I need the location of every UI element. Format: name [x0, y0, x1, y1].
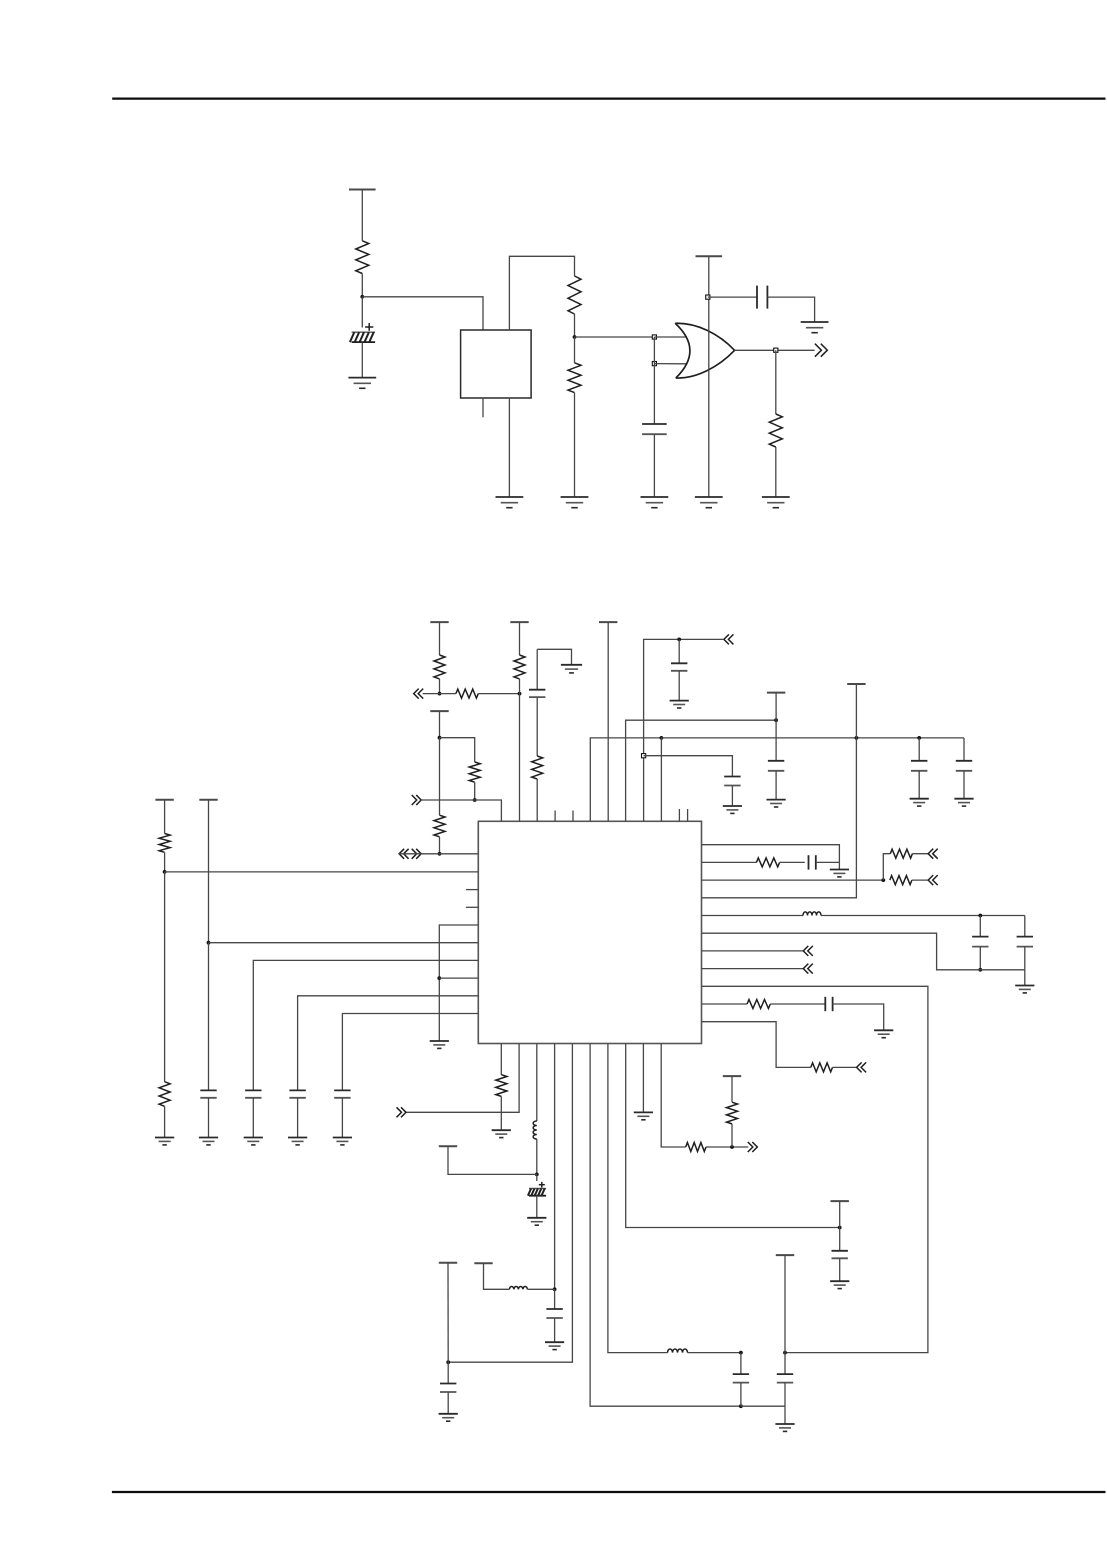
resistor R6	[456, 689, 478, 698]
wire corner down to C4	[536, 649, 538, 689]
wire node B to OR gate input	[575, 336, 655, 338]
wire lower net	[702, 933, 1025, 970]
capacitor C6	[956, 761, 972, 771]
wire pin B9 to ground	[642, 1044, 644, 1113]
wire pull-up node to R20	[731, 1124, 733, 1147]
wire R10 to IC pin T3	[536, 779, 538, 821]
wire C15 to ground	[252, 1098, 254, 1138]
ground (B9)	[634, 1112, 653, 1119]
junction CLKIN at C8	[677, 638, 681, 642]
junction lower net C11	[978, 968, 982, 972]
wire VCC to R1	[361, 190, 363, 241]
wire L4 to C21 node	[687, 1352, 741, 1354]
pin square CLKIN RC tap	[642, 754, 646, 758]
ground (XTAL arm)	[561, 665, 582, 673]
capacitor C5	[911, 761, 927, 771]
wire P10 to VBAT node	[448, 1146, 537, 1174]
resistor R12	[890, 876, 912, 885]
wire R16 to VREF node	[164, 852, 166, 872]
capacitor C15	[245, 1090, 261, 1097]
junction RESET node left	[438, 692, 442, 696]
capacitor C13	[825, 997, 832, 1011]
off-page connector IRQ	[857, 1062, 867, 1072]
ground (R18)	[492, 1130, 511, 1137]
wire P4 down	[439, 711, 441, 738]
capacitor C23	[832, 1251, 848, 1259]
wire P15 to B8 node	[839, 1201, 841, 1227]
wire P4 node down to R9	[439, 738, 441, 816]
junction P4 node	[438, 736, 442, 740]
junction B4 node	[553, 1287, 557, 1291]
wire P6 vertical to pin R4	[702, 684, 857, 898]
junction B5 node	[446, 1360, 450, 1364]
junction RESET node right	[518, 692, 522, 696]
wire VBAT node to C18	[536, 1174, 538, 1181]
wire C20 to ground	[447, 1392, 449, 1414]
polarized capacitor C1	[350, 323, 375, 342]
wire C6 drop	[963, 738, 965, 761]
wire C19 to ground	[554, 1318, 556, 1342]
wire pin B1 to R18	[500, 1044, 502, 1075]
power rail P12	[474, 1262, 492, 1264]
wire C17 to ground	[341, 1098, 343, 1138]
wire R19 to chevron	[706, 1146, 748, 1148]
ground (C17)	[333, 1138, 352, 1145]
wire XTAL branch corner to ground arm	[537, 649, 571, 665]
wire P4 node right and down to R8	[440, 738, 475, 762]
wire C8 drop	[678, 639, 680, 663]
wire P3 to IC pin T7	[607, 622, 609, 821]
capacitor C4	[529, 690, 545, 697]
wire node to R6	[440, 693, 456, 695]
wire node B to R3	[574, 337, 576, 363]
wire L2 to VBAT node	[536, 1139, 538, 1174]
capacitor C9	[724, 777, 740, 786]
junction VCC net at vertical	[855, 736, 859, 740]
wire node A to U1 pin	[362, 297, 483, 330]
capacitor C3	[757, 286, 767, 309]
capacitor C8	[671, 663, 687, 671]
wire P1 to R5	[439, 622, 441, 655]
wire pin R5 to L1 bead	[702, 915, 804, 917]
capacitor C12	[1017, 937, 1033, 947]
ground (R4)	[762, 497, 790, 508]
wire P2 to R7	[519, 622, 521, 655]
power rail P10	[439, 1145, 457, 1147]
resistor R17	[159, 1082, 170, 1107]
resistor R11	[756, 858, 779, 867]
ground (C23)	[830, 1281, 849, 1288]
wire R20 to P13	[731, 1076, 733, 1102]
wire B4 node to C19	[554, 1289, 556, 1309]
power rail P4	[430, 710, 448, 712]
wire C12 to lower net corner	[1024, 947, 1026, 970]
ground (C14)	[199, 1138, 218, 1145]
power rail VCC (top circuit)	[349, 189, 376, 191]
wire C18 to ground	[536, 1196, 538, 1218]
unconnected stub pin T11	[678, 809, 680, 821]
off-page connector CLKOUT	[815, 344, 827, 357]
wire R15 to chevron	[833, 1066, 857, 1068]
wire supply node to C3	[708, 296, 757, 298]
junction VBAT node	[535, 1173, 539, 1177]
wire P9 down	[208, 800, 210, 943]
wire pin B6 route	[590, 1044, 741, 1407]
resistor R15	[811, 1063, 833, 1072]
wire pin R7	[702, 950, 804, 952]
ground (R17)	[155, 1138, 174, 1145]
ground (C15)	[244, 1138, 263, 1145]
unconnected stub pin T12	[687, 809, 689, 821]
wire pin B8 route	[626, 1044, 840, 1228]
inductor L1 (ferrite bead)	[803, 912, 821, 916]
pin square output node	[774, 348, 778, 352]
wire pin B4 down	[554, 1044, 556, 1290]
off-page connector TDI	[928, 875, 938, 885]
power rail P15	[831, 1200, 849, 1202]
wire pin R9 long route	[702, 986, 928, 1352]
wire pin L7 route	[253, 960, 478, 1090]
wire pin T6 riser	[590, 738, 661, 821]
wire R18 to ground	[500, 1096, 502, 1130]
ground (L5/L8)	[430, 1041, 449, 1048]
resistor R7	[514, 655, 525, 679]
wire pin L10 route	[342, 1014, 478, 1091]
capacitor C14	[200, 1090, 216, 1097]
off-page connector RXD	[803, 946, 813, 956]
junction DATA node	[438, 852, 442, 856]
junction AVCC node	[774, 718, 778, 722]
wire P8 to R16	[164, 800, 166, 834]
oscillator module U1	[461, 330, 531, 398]
resistor R16	[159, 834, 170, 853]
wire L3 to B4 node	[528, 1288, 555, 1290]
polarized capacitor C18	[528, 1182, 546, 1196]
capacitor C17	[334, 1090, 350, 1097]
wire U1 ground pin	[508, 398, 510, 497]
junction VCC net at T10	[660, 736, 664, 740]
wire P11 to B5 node	[447, 1263, 449, 1362]
ground (C19)	[545, 1342, 564, 1349]
power rail P11	[439, 1262, 457, 1264]
junction L8 tap	[437, 976, 441, 980]
wire R8 to MODE node	[474, 782, 476, 800]
ground (C2)	[641, 497, 669, 508]
wire OR output	[735, 349, 815, 351]
power rail VCC (gate supply)	[696, 255, 723, 257]
wire pin B5 route	[448, 1044, 572, 1363]
wire B6 net end	[741, 1405, 785, 1407]
wire MODE chevron to corner	[421, 800, 501, 821]
off-page connector TXD	[803, 964, 813, 974]
wire R14 to C13	[770, 1003, 825, 1005]
wire C9 to ground	[731, 786, 733, 807]
junction MODE node	[473, 798, 477, 802]
off-page connector RESET	[414, 689, 424, 699]
wire C1 to ground	[361, 342, 363, 377]
power rail P2	[510, 621, 528, 623]
wire C22 lower	[784, 1383, 786, 1407]
resistor R3	[568, 363, 581, 393]
wire node to ground stub	[838, 862, 840, 869]
wire ground stub B6 net	[784, 1406, 786, 1424]
capacitor C7	[768, 761, 784, 771]
wire node A to C1	[361, 297, 363, 328]
wire R4 to ground	[775, 447, 777, 497]
wire C11 drop	[979, 916, 981, 938]
wire L8 tap to IC	[439, 977, 478, 979]
wire pin R1	[702, 845, 840, 863]
capacitor C2	[642, 424, 667, 434]
pin square OR input 1	[652, 335, 656, 339]
wire pin B7 route	[608, 1044, 668, 1353]
ground (C20)	[439, 1414, 458, 1421]
junction B10 pull-up node	[730, 1145, 734, 1149]
resistor R8	[469, 762, 480, 782]
wire R6 to node2	[478, 693, 519, 695]
wire P14 to C22 node	[784, 1255, 786, 1374]
wire ground stub filter	[1024, 970, 1026, 986]
junction B6 node at C21	[739, 1404, 743, 1408]
microcontroller U3	[478, 821, 701, 1043]
ground (R1/R2 net)	[830, 870, 849, 877]
resistor R5	[434, 655, 445, 679]
wire L1 to filter node	[821, 915, 1025, 917]
ground (R3)	[561, 497, 589, 508]
wire RESET chevron to node	[423, 693, 440, 695]
wire DATA to IC pin L1	[421, 853, 478, 855]
wire C10 to node	[816, 861, 840, 863]
wire pin R3	[702, 879, 884, 881]
capacitor C21	[733, 1374, 749, 1383]
ground (C8)	[670, 701, 689, 708]
off-page connector DATA (bidirectional)	[399, 849, 421, 859]
power rail P13	[723, 1075, 741, 1077]
capacitor C16	[289, 1090, 305, 1097]
pin square OR input 2	[652, 362, 656, 366]
wire pin R8	[702, 968, 804, 970]
wire pin B10 route	[661, 1044, 686, 1148]
resistor R1	[356, 241, 369, 274]
wire P9 node to C14	[208, 943, 210, 1091]
junction node A	[360, 295, 364, 299]
wire R5 to node	[439, 679, 441, 694]
wire C14 to ground	[208, 1098, 210, 1138]
wire C2 to ground	[653, 434, 655, 497]
wire C8 to ground	[678, 671, 680, 701]
wire pin R10 to R14	[702, 1003, 748, 1005]
wire C3 to ground	[767, 297, 814, 322]
wire gate supply vertical	[708, 256, 710, 497]
wire R7 to node2	[519, 679, 521, 694]
junction B8 node	[838, 1226, 842, 1230]
wire R13 to chevron	[912, 853, 928, 855]
wire pin R2 to R11	[702, 861, 757, 863]
power rail P3	[599, 621, 617, 623]
off-page connector WAKE	[748, 1142, 758, 1152]
ground (gate supply)	[695, 497, 723, 508]
junction upper C21 node	[739, 1351, 743, 1355]
capacitor C20	[440, 1384, 456, 1393]
wire C21 upper drop	[740, 1353, 742, 1375]
ground (C3)	[801, 322, 829, 333]
wire joining OR inputs	[653, 337, 655, 364]
wire pin B2 to chevron	[406, 1044, 519, 1113]
off-page connector BOOT	[397, 1107, 407, 1117]
wire P9 node to IC pin L6	[209, 942, 479, 944]
wire U1 output to divider	[509, 256, 574, 330]
wire CLKIN chevron left	[644, 639, 724, 821]
wire RC tap to C9	[644, 756, 733, 777]
junction filter node C11	[978, 914, 982, 918]
ground (C16)	[288, 1138, 307, 1145]
wire C5 drop	[918, 738, 920, 761]
wire stub into OR input 2	[654, 363, 686, 365]
wire C11 to lower net	[979, 947, 981, 970]
wire C5 to ground	[918, 771, 920, 799]
wire R17 to ground	[164, 1106, 166, 1137]
ground (filter)	[1015, 986, 1034, 993]
bottom horizontal rule	[112, 1491, 1106, 1493]
wire R12 to chevron	[912, 879, 928, 881]
junction VREF node	[163, 870, 167, 874]
resistor R18	[496, 1075, 507, 1097]
wire stub into OR input 1	[654, 336, 686, 338]
top horizontal rule	[112, 97, 1105, 99]
power rail P9	[199, 799, 217, 801]
wire split riser	[883, 854, 890, 880]
off-page connector CLKIN	[724, 634, 734, 644]
unconnected stub U1 pin 1	[482, 398, 484, 417]
wire B8 node to C23	[839, 1228, 841, 1251]
resistor R19	[686, 1143, 706, 1152]
capacitor C22	[777, 1374, 793, 1383]
pin square gate supply node	[706, 295, 710, 299]
junction P9 node	[207, 941, 211, 945]
unconnected stub pin T4	[554, 811, 556, 822]
wire C6 to ground	[963, 771, 965, 799]
wire filter right corner	[1024, 916, 1026, 938]
inductor L2 (ferrite bead)	[533, 1121, 537, 1139]
ground (U1)	[496, 497, 524, 508]
wire C7 to ground	[775, 771, 777, 800]
resistor R2	[568, 276, 581, 314]
wire pin L9 route	[298, 996, 479, 1091]
wire VREF node to IC pin L2	[165, 871, 479, 873]
power rail P6	[847, 683, 865, 685]
power rail P14	[776, 1254, 794, 1256]
unconnected stub pin L4	[466, 906, 478, 908]
junction node B	[573, 335, 577, 339]
resistor R20	[727, 1102, 738, 1124]
power rail P1	[430, 621, 448, 623]
wire pin T8 riser	[626, 720, 777, 821]
wire OR inputs to C2	[653, 364, 655, 424]
resistor R9	[434, 815, 445, 837]
resistor R10	[532, 756, 543, 779]
wire pin B3 to L2 bead	[536, 1044, 538, 1122]
wire R2 to node B	[574, 314, 576, 337]
wire C16 to ground	[297, 1098, 299, 1138]
power rail P8	[155, 799, 173, 801]
capacitor C10	[809, 855, 816, 869]
wire P5 to AVCC node	[775, 693, 777, 721]
wire R1 to node A	[361, 274, 363, 297]
resistor R4	[769, 414, 782, 447]
wire C21 lower	[740, 1383, 742, 1407]
wire R9 to DATA node	[439, 837, 441, 854]
junction VCC net at C5	[917, 736, 921, 740]
wire R11 to C10	[780, 861, 805, 863]
wire node2 to IC pin T2	[519, 694, 521, 822]
unconnected stub pin T5	[572, 811, 574, 822]
OR gate U2	[675, 323, 734, 378]
ground (B6 net)	[775, 1424, 794, 1431]
resistor R14	[747, 1000, 770, 1009]
wire pin L5 ground route	[439, 925, 478, 1041]
wire P12 route	[484, 1263, 510, 1289]
resistor R13	[890, 849, 912, 858]
wire AVCC node to C7	[775, 720, 777, 761]
inductor L3	[509, 1286, 527, 1289]
wire B5 node to C20	[447, 1362, 449, 1383]
ground (C9)	[723, 806, 742, 813]
wire C23 to ground	[839, 1258, 841, 1281]
wire pin T10 riser	[660, 738, 662, 821]
off-page connector TDO	[928, 849, 938, 859]
wire C13 to corner	[833, 1004, 884, 1030]
inductor L4	[668, 1349, 688, 1353]
power rail P5	[767, 692, 785, 694]
ground (C7)	[767, 800, 786, 807]
ground (R10 net)	[874, 1030, 893, 1037]
unconnected stub pin L3	[466, 889, 478, 891]
wire VCC net to decoupling caps	[661, 737, 964, 739]
wire pin R11 route	[702, 1022, 811, 1068]
wire output node to R4	[775, 350, 777, 414]
wire R3 to ground	[574, 393, 576, 497]
junction pin R3 split	[881, 878, 885, 882]
wire C4 to R10	[536, 697, 538, 756]
off-page connector MODE	[412, 795, 422, 805]
capacitor C11	[972, 937, 988, 947]
ground (C18)	[527, 1218, 546, 1225]
ground (C5)	[910, 799, 929, 806]
wire VREF node down to R17	[164, 872, 166, 1082]
ground (C1)	[348, 378, 376, 389]
capacitor C19	[546, 1309, 562, 1318]
ground (C6)	[954, 799, 973, 806]
junction upper C22 node	[783, 1351, 787, 1355]
